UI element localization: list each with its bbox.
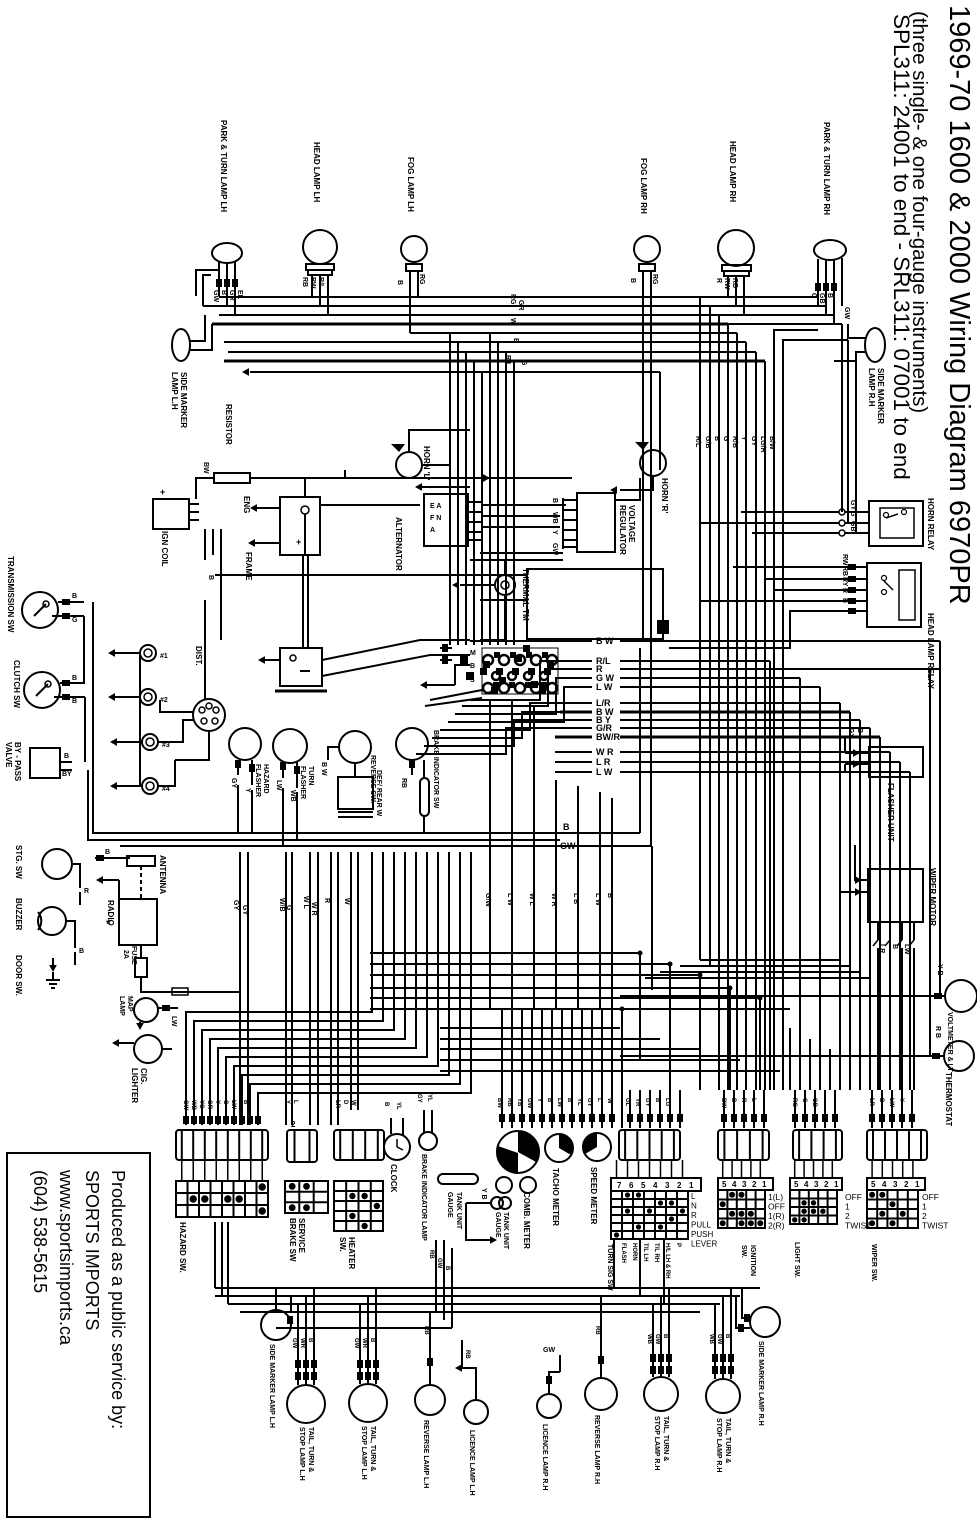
svg-text:Produced as a public service b: Produced as a public service by: — [108, 1170, 128, 1429]
wire thermal — [504, 560, 506, 575]
svg-text:LR: LR — [334, 1100, 340, 1109]
thermal tm — [495, 575, 515, 595]
svg-text:WB: WB — [289, 790, 296, 802]
hazard connector — [176, 1130, 268, 1160]
svg-text:1969-70 1600 & 2000 Wiring Dia: 1969-70 1600 & 2000 Wiring Diagram 6970P… — [943, 5, 975, 605]
svg-text:R/L: R/L — [694, 436, 701, 448]
svg-text:TANK UNIT: TANK UNIT — [502, 1212, 509, 1250]
svg-text:HORN RELAY: HORN RELAY — [926, 498, 935, 551]
svg-text:FOG LAMP RH: FOG LAMP RH — [639, 158, 648, 214]
long vertical pair GY — [239, 852, 241, 1125]
svg-text:2: 2 — [677, 1181, 682, 1190]
svg-text:B: B — [566, 1098, 572, 1103]
svg-text:YG: YG — [198, 1100, 204, 1109]
svg-text:GW: GW — [182, 1100, 188, 1111]
long center verticals crossing corridor — [489, 700, 491, 1010]
ignition sw feed verticals — [723, 1090, 725, 1128]
cig lighter arrow — [112, 1039, 119, 1047]
svg-text:LIGHT SW.: LIGHT SW. — [793, 1242, 800, 1278]
horn relay — [869, 501, 923, 546]
svg-text:RG: RG — [791, 1098, 797, 1107]
svg-text:OFF: OFF — [845, 1192, 862, 1202]
svg-text:RESISTOR: RESISTOR — [224, 404, 233, 445]
staircase into hazard connector — [186, 852, 372, 1125]
ignition cluster diagonal wires — [430, 690, 482, 700]
svg-text:www.sportsimports.ca: www.sportsimports.ca — [56, 1169, 76, 1346]
wire fog RH RG down — [650, 372, 652, 846]
svg-text:BRAKE INDICATOR LAMP: BRAKE INDICATOR LAMP — [420, 1154, 427, 1241]
svg-text:GW: GW — [212, 290, 219, 302]
svg-text:STOP LAMP L.H: STOP LAMP L.H — [360, 1426, 367, 1480]
svg-text:WIPER SW.: WIPER SW. — [870, 1244, 877, 1282]
resistor — [214, 473, 250, 483]
svg-text:+: + — [296, 537, 301, 547]
svg-text:Y: Y — [214, 1100, 220, 1104]
svg-text:4: 4 — [732, 1180, 737, 1189]
starter solenoid box — [280, 497, 320, 555]
svg-text:MAP: MAP — [126, 996, 133, 1012]
long vertical pair WB G — [285, 852, 287, 1125]
turn sig connector — [619, 1130, 680, 1160]
corridor left risers — [214, 1222, 216, 1288]
wire GW corridor — [120, 845, 652, 847]
svg-text:B: B — [730, 1098, 736, 1103]
svg-text:HEAD LAMP RH: HEAD LAMP RH — [728, 141, 737, 202]
svg-text:R B: R B — [934, 1026, 941, 1038]
wire horn relay left — [741, 511, 839, 513]
svg-text:ANTENNA: ANTENNA — [158, 855, 167, 894]
wire side marker RH bottom — [742, 1288, 750, 1318]
dist — [193, 699, 225, 731]
svg-text:YL: YL — [426, 1094, 432, 1102]
svg-text:CLUTCH SW: CLUTCH SW — [12, 660, 21, 708]
flasher unit stubs — [853, 749, 860, 757]
svg-text:HORN: HORN — [631, 1243, 637, 1261]
svg-text:SPORTS IMPORTS: SPORTS IMPORTS — [82, 1170, 102, 1330]
svg-text:GY: GY — [586, 1098, 592, 1107]
horn L — [396, 452, 422, 478]
frame ground — [248, 539, 255, 547]
svg-text:B W: B W — [320, 762, 327, 776]
svg-text:A: A — [430, 527, 435, 534]
svg-text:RW: RW — [841, 554, 848, 566]
svg-text:GR: GR — [228, 290, 235, 301]
wire regulator left — [480, 552, 563, 554]
reverse sw — [339, 731, 371, 763]
svg-text:B: B — [713, 436, 720, 441]
wire dist to plug bus — [175, 731, 209, 760]
svg-text:T/L LH: T/L LH — [642, 1243, 648, 1262]
svg-text:5: 5 — [794, 1180, 799, 1189]
wire B corridor — [120, 832, 640, 834]
light sw connector — [793, 1130, 842, 1160]
svg-text:GW: GW — [526, 1098, 532, 1109]
svg-text:B: B — [629, 278, 636, 283]
svg-text:SW.: SW. — [740, 1245, 747, 1258]
svg-text:B: B — [72, 698, 77, 705]
svg-text:BW: BW — [720, 1098, 726, 1108]
wire park turn RH down to horn relay — [841, 324, 843, 512]
svg-text:FOG LAMP LH: FOG LAMP LH — [406, 157, 415, 212]
svg-text:L W: L W — [596, 682, 613, 692]
svg-text:CLOCK: CLOCK — [389, 1164, 398, 1193]
svg-text:GAUGE: GAUGE — [446, 1192, 453, 1218]
svg-text:R: R — [323, 898, 330, 903]
svg-text:B: B — [105, 849, 110, 856]
svg-text:ENG: ENG — [242, 496, 251, 513]
svg-text:GR: GR — [206, 1100, 212, 1110]
wire tail LH inner — [359, 1352, 361, 1384]
wire side marker LH — [190, 315, 205, 341]
svg-text:B: B — [654, 1098, 660, 1103]
switch feed terminal blobs — [627, 1114, 633, 1122]
svg-text:RG: RG — [509, 294, 516, 305]
wire coil down to dist — [204, 529, 206, 560]
junction box right tab — [657, 620, 669, 634]
wire fuse down — [141, 977, 240, 992]
svg-text:M: M — [470, 650, 476, 657]
map lamp — [134, 998, 158, 1022]
inline connector — [172, 988, 188, 995]
svg-text:HORN 'L': HORN 'L' — [422, 446, 431, 481]
fuse 2A — [135, 958, 147, 977]
wire head lamp relay left — [733, 566, 843, 568]
svg-text:LEVER: LEVER — [691, 1240, 717, 1249]
center mesh horizontals lower — [440, 1027, 620, 1029]
svg-text:G: G — [285, 905, 292, 911]
svg-text:GL: GL — [624, 1098, 630, 1107]
brake sw lamp — [396, 728, 428, 760]
svg-text:LG: LG — [664, 1098, 670, 1107]
svg-text:2: 2 — [922, 1211, 927, 1221]
svg-text:W: W — [343, 898, 350, 905]
antenna — [127, 856, 155, 866]
svg-text:N: N — [691, 1202, 697, 1211]
svg-text:YB: YB — [516, 1098, 522, 1107]
reverse lamp LH — [415, 1385, 445, 1415]
tacho meter — [545, 1134, 573, 1162]
wire wiper motor down — [877, 948, 879, 1090]
right corridor bends — [729, 988, 731, 1090]
svg-text:2: 2 — [845, 1211, 850, 1221]
ignition cluster stubs left — [440, 659, 452, 661]
svg-text:G: G — [72, 617, 78, 624]
svg-text:HEATER: HEATER — [347, 1237, 356, 1270]
wire side marker RH — [848, 324, 865, 338]
svg-text:YR: YR — [634, 1098, 640, 1107]
light sw grid — [790, 1178, 842, 1190]
mesh bends to meters — [639, 953, 641, 1060]
wiper sw connector — [867, 1130, 927, 1160]
svg-text:B: B — [563, 822, 570, 832]
starter motor box — [280, 648, 322, 686]
svg-text:L R: L R — [596, 757, 611, 767]
svg-text:1: 1 — [689, 1181, 694, 1190]
service brake connector — [287, 1130, 317, 1162]
wire turn flasher down — [282, 788, 284, 846]
svg-text:LR: LR — [868, 1098, 874, 1107]
ignition switch contact cluster — [483, 655, 493, 665]
svg-text:STG. SW: STG. SW — [14, 845, 23, 879]
svg-text:B: B — [64, 753, 69, 760]
svg-text:B: B — [546, 1098, 552, 1103]
svg-text:LICENCE LAMP L.H: LICENCE LAMP L.H — [468, 1430, 475, 1496]
svg-text:DIST.: DIST. — [194, 646, 203, 666]
svg-text:DEF/ REAR W: DEF/ REAR W — [375, 770, 382, 817]
svg-text:R: R — [740, 1098, 746, 1103]
svg-text:W L: W L — [302, 896, 309, 910]
svg-text:PARK & TURN LAMP LH: PARK & TURN LAMP LH — [219, 120, 228, 212]
tail turn stop lamp RH outer — [644, 1377, 678, 1411]
svg-text:1: 1 — [845, 1202, 850, 1212]
svg-text:W: W — [509, 318, 516, 325]
mid bundle left steps to cluster — [470, 640, 575, 642]
svg-text:3: 3 — [742, 1180, 747, 1189]
svg-text:G: G — [520, 360, 527, 366]
wire fog RH B down — [642, 333, 644, 640]
corridor from mid bundle right verticals — [700, 959, 840, 961]
svg-text:GY: GY — [232, 900, 239, 910]
right vertical bundle continues — [773, 380, 775, 470]
licence lamp LH — [464, 1400, 488, 1424]
wire alternator to regulator — [482, 504, 566, 506]
arrow wire to side marker LH — [250, 371, 660, 373]
svg-text:R/B: R/B — [731, 436, 738, 448]
svg-text:RB: RB — [464, 1350, 470, 1359]
svg-text:W R: W R — [310, 902, 317, 916]
svg-text:5: 5 — [871, 1180, 876, 1189]
wiper sw feed verticals — [871, 1090, 873, 1128]
map lamp arrow — [136, 1023, 144, 1030]
svg-text:FLASH: FLASH — [620, 1243, 626, 1263]
svg-text:2: 2 — [291, 1120, 296, 1129]
svg-text:OFF: OFF — [922, 1192, 939, 1202]
svg-text:3: 3 — [893, 1180, 898, 1189]
svg-text:GY: GY — [230, 778, 237, 788]
alternator connector ticks — [468, 501, 482, 503]
svg-text:TANK UNIT: TANK UNIT — [455, 1192, 462, 1230]
tank unit gauge — [491, 1197, 503, 1209]
svg-text:6: 6 — [629, 1181, 634, 1190]
svg-text:1: 1 — [915, 1180, 920, 1189]
park & turn lamp LH — [212, 243, 242, 263]
svg-text:G: G — [722, 436, 729, 442]
svg-text:G/W: G/W — [484, 893, 491, 907]
svg-text:B: B — [444, 1266, 450, 1271]
wire cig lighter right — [162, 1048, 172, 1050]
wire resistor to junction — [250, 470, 345, 478]
alternator — [424, 494, 468, 546]
svg-text:1(R): 1(R) — [768, 1211, 785, 1221]
svg-text:LW: LW — [888, 1098, 894, 1107]
gauge capsule — [438, 1174, 478, 1184]
wire resistor to coil — [196, 478, 214, 499]
svg-text:L W: L W — [506, 893, 513, 906]
tail turn stop lamp RH inner — [706, 1379, 740, 1413]
svg-text:RB: RB — [594, 1326, 600, 1335]
svg-text:B: B — [512, 338, 519, 343]
main junction box — [527, 569, 663, 639]
top wire bundle — [219, 296, 700, 298]
grid stub wires — [616, 1160, 618, 1178]
wire licence RH — [549, 1372, 560, 1394]
svg-text:4: 4 — [804, 1180, 809, 1189]
svg-text:BY: BY — [62, 771, 72, 778]
svg-text:WR: WR — [299, 1338, 305, 1349]
svg-text:B W: B W — [596, 636, 614, 646]
svg-text:B: B — [891, 944, 898, 949]
wiper motor — [868, 869, 923, 922]
svg-text:IGN COIL: IGN COIL — [160, 531, 169, 567]
svg-text:Y: Y — [740, 436, 747, 441]
svg-text:LAMP R.H: LAMP R.H — [867, 368, 876, 407]
svg-text:SIDE MARKER: SIDE MARKER — [876, 368, 885, 424]
svg-text:B: B — [369, 1338, 375, 1343]
svg-text:GY: GY — [241, 905, 248, 915]
svg-text:L B: L B — [572, 893, 579, 904]
svg-text:FLASHER: FLASHER — [299, 766, 306, 799]
wire licence LH — [462, 1368, 476, 1400]
svg-text:HORN 'R': HORN 'R' — [660, 478, 669, 513]
hazard sw grid — [176, 1181, 268, 1217]
turn flasher — [273, 729, 307, 763]
svg-text:4: 4 — [653, 1181, 658, 1190]
svg-text:B: B — [662, 1334, 668, 1339]
fog lamp RH — [634, 236, 660, 262]
svg-text:WB: WB — [551, 512, 558, 524]
reverse lamp RH — [585, 1378, 617, 1410]
bottom corridor wires — [215, 1287, 760, 1289]
svg-text:FRAME: FRAME — [244, 552, 253, 581]
harness drop from top bundle to cluster — [449, 333, 451, 645]
thermostat lamp 1 — [945, 980, 977, 1012]
svg-text:G/B: G/B — [704, 436, 711, 448]
svg-text:2(R): 2(R) — [768, 1221, 785, 1231]
svg-text:GW: GW — [843, 307, 850, 319]
svg-text:B: B — [551, 498, 558, 503]
svg-text:L W: L W — [596, 767, 613, 777]
svg-text:LW: LW — [230, 1100, 236, 1109]
comb meter — [497, 1131, 539, 1173]
meter feed terminal blobs — [499, 1114, 505, 1122]
svg-text:GW: GW — [716, 1334, 722, 1345]
svg-text:G: G — [222, 1100, 228, 1105]
svg-text:PARK & TURN LAMP RH: PARK & TURN LAMP RH — [822, 122, 831, 215]
wire hazard flasher down — [237, 785, 239, 833]
svg-text:S: S — [470, 677, 475, 684]
head lamp LH — [303, 230, 337, 264]
wire hazard stubs — [181, 1160, 183, 1181]
svg-text:*: * — [106, 917, 111, 931]
ign coil — [153, 499, 189, 529]
svg-text:OFF: OFF — [768, 1202, 785, 1212]
svg-text:IGNITION: IGNITION — [749, 1245, 756, 1276]
svg-text:GB: GB — [811, 1098, 817, 1108]
svg-text:PULL: PULL — [691, 1221, 712, 1230]
svg-text:LR: LR — [878, 944, 885, 953]
svg-text:RB: RB — [506, 1098, 512, 1107]
right vertical bundle continuation — [699, 470, 701, 960]
wire reverse LH — [429, 1340, 431, 1385]
svg-text:W/B: W/B — [278, 898, 285, 912]
svg-text:B: B — [878, 1098, 884, 1103]
svg-text:B: B — [79, 948, 84, 955]
svg-text:YL: YL — [395, 1102, 401, 1110]
svg-text:P: P — [675, 1243, 681, 1247]
ignition connector — [718, 1130, 769, 1160]
wire plugs bus — [139, 653, 141, 786]
svg-text:RB: RB — [731, 278, 738, 288]
svg-text:RW: RW — [309, 277, 316, 289]
wire thermostat 1 — [620, 995, 945, 997]
svg-text:W L: W L — [528, 893, 535, 907]
spark plug 2 — [140, 689, 156, 705]
svg-text:SPL311: 24001 to end - SRL311:: SPL311: 24001 to end - SRL311: 07001 to … — [889, 14, 914, 480]
svg-text:1: 1 — [834, 1180, 839, 1189]
buzzer — [38, 907, 66, 935]
svg-text:REVERSE LAMP R.H: REVERSE LAMP R.H — [593, 1415, 600, 1484]
svg-text:TACHO METER: TACHO METER — [551, 1168, 560, 1226]
radio arrow — [96, 876, 103, 884]
svg-text:GW: GW — [291, 1338, 297, 1349]
svg-text:L W: L W — [594, 893, 601, 906]
svg-text:2: 2 — [824, 1180, 829, 1189]
svg-text:HEAD LAMP LH: HEAD LAMP LH — [312, 142, 321, 203]
svg-text:L: L — [750, 1098, 756, 1102]
svg-text:FLASHER UNIT: FLASHER UNIT — [886, 783, 895, 842]
svg-text:REVERSE LAMP L.H: REVERSE LAMP L.H — [422, 1420, 429, 1488]
svg-text:FLASHER: FLASHER — [254, 764, 261, 797]
svg-text:#2: #2 — [160, 697, 168, 704]
wire junction left — [215, 574, 527, 576]
svg-text:LAMP L.H: LAMP L.H — [170, 372, 179, 410]
svg-text:W R: W R — [596, 747, 614, 757]
svg-text:BW: BW — [496, 1098, 502, 1108]
wire tail RH outer — [652, 1348, 654, 1377]
svg-text:BW/R: BW/R — [596, 732, 620, 742]
flasher unit — [869, 747, 923, 777]
credit box — [7, 1153, 150, 1517]
head lamp RH — [718, 230, 754, 266]
svg-text:+: + — [160, 487, 165, 497]
svg-text:F N: F N — [430, 515, 441, 522]
svg-text:TURN: TURN — [307, 766, 314, 785]
wire bundle bends down to right vertical bundle — [699, 297, 701, 470]
by-pass valve — [30, 748, 60, 778]
head lamp relay — [867, 563, 921, 627]
svg-text:2A: 2A — [122, 950, 129, 959]
svg-text:FUSE: FUSE — [130, 946, 137, 965]
wire solenoid top to bundle — [304, 478, 306, 497]
svg-text:W: W — [606, 1098, 612, 1104]
svg-text:GY: GY — [416, 1094, 422, 1103]
def heater box — [338, 777, 373, 809]
svg-text:1: 1 — [762, 1180, 767, 1189]
door sw — [49, 965, 57, 972]
svg-text:#3: #3 — [162, 742, 170, 749]
svg-text:5: 5 — [722, 1180, 727, 1189]
svg-text:RW: RW — [723, 278, 730, 290]
svg-text:DOOR SW.: DOOR SW. — [14, 955, 23, 996]
svg-text:SERVICE: SERVICE — [297, 1218, 306, 1254]
clutch sw — [24, 672, 60, 708]
cig lighter — [134, 1035, 162, 1063]
svg-text:BRAKE SW: BRAKE SW — [288, 1218, 297, 1262]
svg-text:B: B — [470, 663, 475, 670]
svg-text:L: L — [292, 1100, 298, 1104]
battery cable wire right — [320, 504, 420, 506]
tail turn stop lamp LH inner — [349, 1384, 387, 1422]
